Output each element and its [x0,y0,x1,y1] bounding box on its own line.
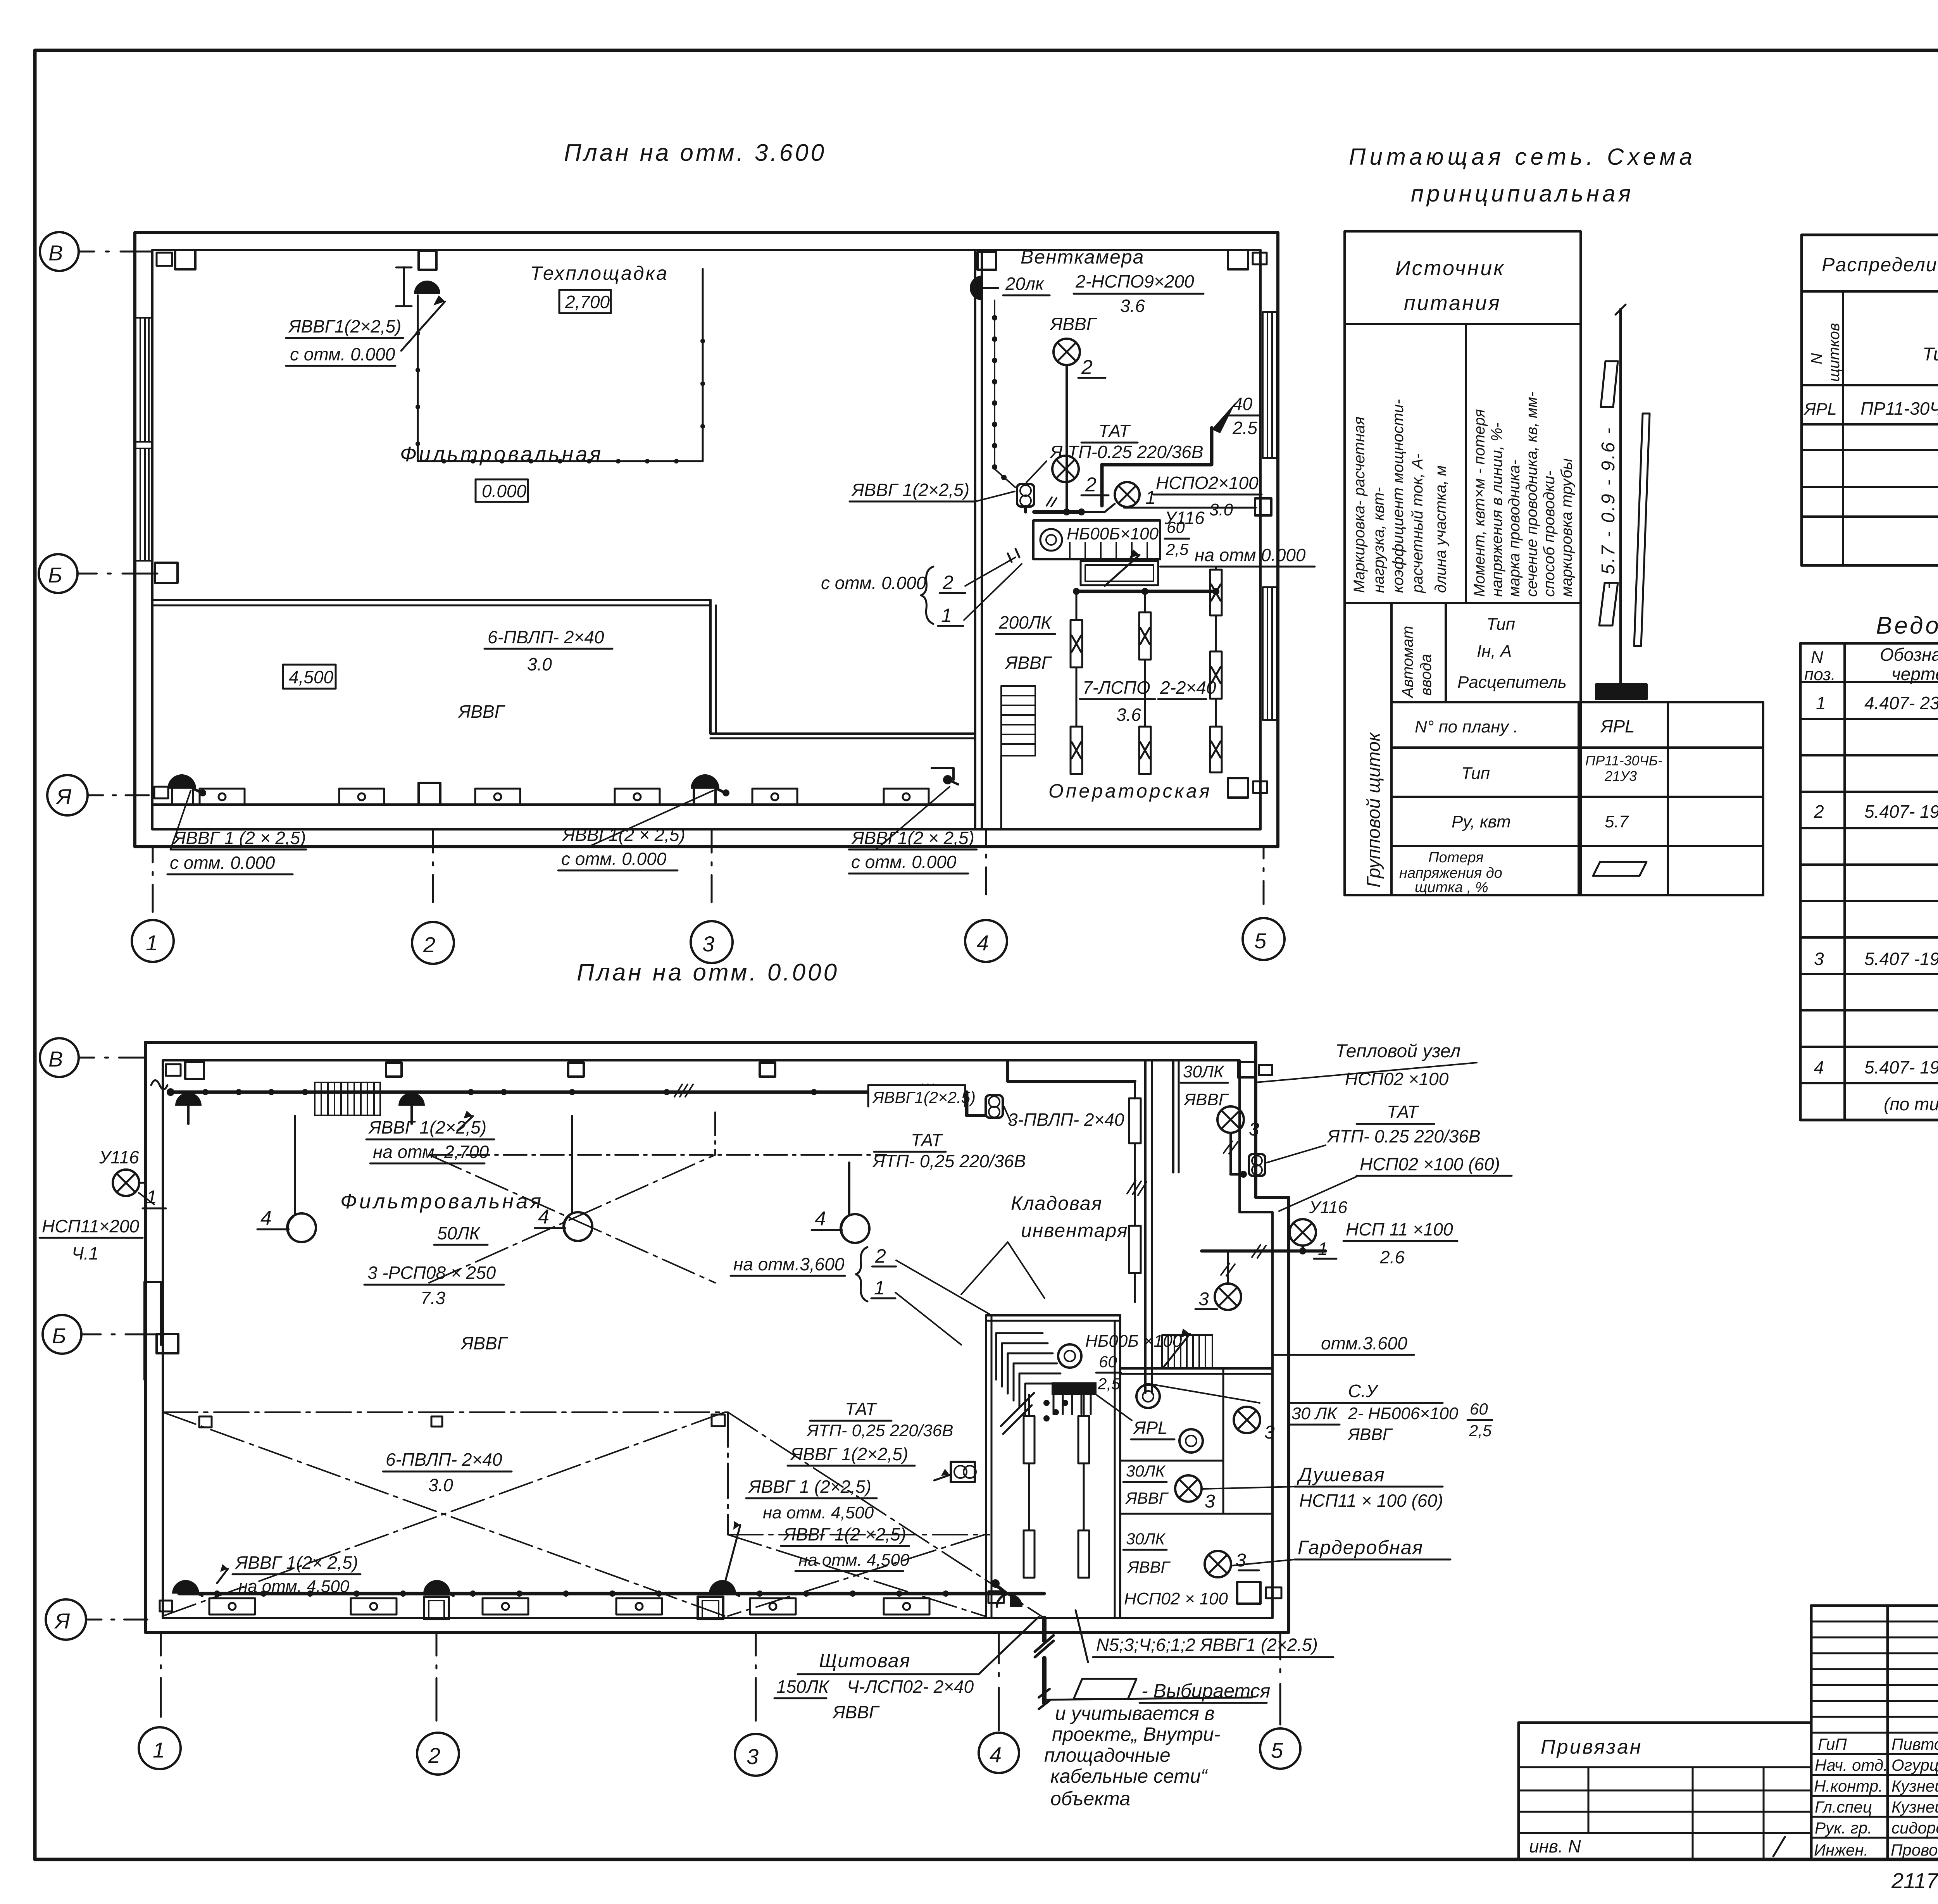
axis V circle [39,232,157,815]
svg-text:Пивторак: Пивторак [1891,1735,1938,1753]
svg-text:4: 4 [977,930,989,955]
svg-text:4: 4 [815,1208,826,1230]
svg-text:У116: У116 [99,1147,139,1167]
svg-text:на отм.3,600: на отм.3,600 [733,1254,845,1274]
svg-text:ЯТП- 0,25 220/36В: ЯТП- 0,25 220/36В [872,1151,1026,1171]
schematic table frame [1345,231,1581,895]
dome lamps on top bus [175,1092,202,1106]
svg-text:2,700: 2,700 [565,292,610,312]
svg-text:Тип: Тип [1486,615,1515,634]
svg-text:ТАТ: ТАТ [911,1130,943,1150]
svg-text:5.407- 19 - 17: 5.407- 19 - 17 [1864,1057,1938,1077]
svg-text:4: 4 [990,1742,1002,1767]
svg-text:НБ00Б×100: НБ00Б×100 [1067,524,1159,543]
labels under A wall [170,825,974,873]
svg-text:ЯРL: ЯРL [1133,1418,1168,1438]
svg-text:принципиальная: принципиальная [1411,181,1634,207]
svg-text:ЯВВГ: ЯВВГ [457,701,505,722]
NB00B row equipment [1033,520,1160,559]
svg-text:3 -РСП08 × 250: 3 -РСП08 × 250 [367,1263,496,1283]
svg-text:2-2×40: 2-2×40 [1160,677,1216,698]
svg-text:Автомат: Автомат [1399,626,1416,698]
svg-text:ЯВВГ: ЯВВГ [1347,1425,1393,1444]
svg-text:щитков: щитков [1826,323,1843,382]
svg-text:ЯВВГ: ЯВВГ [460,1333,508,1353]
svg-text:2: 2 [1081,356,1093,379]
equipment row bottom lower plan [209,1598,929,1615]
svg-text:2: 2 [875,1245,886,1267]
svg-text:проекте„ Внутри-: проекте„ Внутри- [1052,1723,1220,1745]
lamp 1 [1115,482,1140,507]
svg-text:сидорова: сидорова [1891,1819,1938,1837]
YaTP box right wall lower [951,1462,975,1482]
left wall window hatch 1 [136,312,1277,720]
bottom right squares [1237,1582,1260,1604]
svg-text:объекта: объекта [1050,1788,1130,1809]
arrow into box [1105,555,1140,586]
svg-text:питания: питания [1404,291,1501,315]
svg-text:марка проводника-: марка проводника- [1506,460,1523,597]
svg-text:4,500: 4,500 [289,667,334,687]
svg-text:и учитывается в: и учитывается в [1055,1702,1215,1724]
axis A circle [47,775,88,815]
svg-text:НСПО2×100: НСПО2×100 [1156,473,1259,493]
svg-text:Щитовая: Щитовая [819,1650,910,1671]
building inner wall [152,250,1260,829]
wall squares top lower plan [166,1064,181,1076]
svg-text:4: 4 [1814,1057,1824,1077]
svg-text:коэффициент мощности-: коэффициент мощности- [1390,399,1407,593]
svg-text:У116: У116 [1309,1198,1348,1217]
svg-text:1: 1 [1816,693,1826,713]
svg-text:ЯВВГ1(2×2,5): ЯВВГ1(2×2,5) [288,316,401,336]
rotated column text right [1471,392,1575,597]
fan circles [1058,1344,1081,1368]
svg-text:Гардеробная: Гардеробная [1298,1537,1423,1558]
svg-text:Б: Б [52,1323,66,1348]
svg-text:30ЛК: 30ЛК [1126,1462,1166,1480]
privyazan box [1519,1721,1811,1724]
column square B-axis [155,563,178,583]
svg-text:Тепловой узел: Тепловой узел [1335,1041,1460,1061]
svg-text:Инжен.: Инжен. [1814,1841,1868,1859]
svg-text:3: 3 [1198,1289,1209,1310]
svg-text:3: 3 [1205,1491,1215,1512]
svg-text:инвентаря: инвентаря [1021,1220,1128,1241]
svg-text:Потеря: Потеря [1428,849,1483,866]
signature table [1810,1606,1813,1859]
line to lamp1 and socket bracket [1105,504,1115,512]
lamp teplovoy [1217,1106,1244,1133]
svg-text:Кузнецов: Кузнецов [1891,1777,1938,1795]
dotted wire down [994,300,995,469]
svg-text:Групповой щиток: Групповой щиток [1364,732,1384,887]
svg-text:N: N [1808,353,1825,364]
right wall window hatch 2 [1263,587,1277,720]
svg-text:3.6: 3.6 [1120,296,1145,316]
stairs upper plan [1001,686,1035,756]
thick feeder from panel down [1042,1618,1047,1703]
svg-text:поз.: поз. [1804,665,1836,684]
small squares on dash line [199,1416,212,1427]
svg-text:1: 1 [146,930,158,955]
svg-text:ЯВВГ 1(2×2,5): ЯВВГ 1(2×2,5) [790,1444,908,1464]
svg-text:ЯТП- 0,25 220/36В: ЯТП- 0,25 220/36В [806,1421,953,1440]
svg-text:3: 3 [1264,1422,1275,1443]
svg-text:ЯВВГ: ЯВВГ [1049,314,1097,334]
svg-text:Ч.1: Ч.1 [72,1243,98,1263]
svg-text:30 ЛК: 30 ЛК [1291,1404,1338,1423]
svg-text:200ЛК: 200ЛК [998,612,1052,632]
svg-text:5.407 -19 -21: 5.407 -19 -21 [1864,949,1938,969]
svg-text:3.0: 3.0 [428,1475,453,1495]
svg-text:НСП02 ×100: НСП02 ×100 [1345,1069,1449,1089]
svg-text:Провоторова: Провоторова [1891,1841,1938,1859]
svg-text:на отм. 4,500: на отм. 4,500 [798,1551,910,1570]
svg-text:1: 1 [874,1277,885,1299]
svg-text:5: 5 [1271,1738,1283,1763]
svg-text:2: 2 [942,572,953,593]
svg-text:N5;3;Ч;6;1;2 ЯВВГ1 (2×2.5): N5;3;Ч;6;1;2 ЯВВГ1 (2×2.5) [1096,1635,1318,1655]
svg-text:Н.контр.: Н.контр. [1814,1777,1883,1795]
ventkamera wall dome [970,276,982,300]
axis V circle lower [40,1038,79,1077]
corridor equipment rects [200,789,929,805]
svg-text:5.7: 5.7 [1605,812,1629,831]
svg-text:2- НБ006×100: 2- НБ006×100 [1348,1404,1459,1423]
chains [1071,567,1222,774]
svg-text:С.У: С.У [1348,1381,1379,1401]
svg-text:ПР11-30ЧБ-: ПР11-30ЧБ- [1585,753,1662,768]
bottom axis circles lower plan [139,1632,1300,1776]
bus corner down to YaTP [965,1092,969,1115]
svg-text:Кладовая: Кладовая [1011,1192,1102,1214]
svg-text:НСП11×200: НСП11×200 [42,1216,140,1236]
svg-text:Привязан: Привязан [1541,1736,1642,1758]
svg-text:1: 1 [941,605,952,626]
svg-text:2.6: 2.6 [1379,1247,1405,1267]
svg-text:4: 4 [260,1207,272,1229]
svg-text:3.0: 3.0 [1209,500,1233,519]
hook mark left of bus [151,1080,167,1090]
building outer wall lower [145,1042,1289,1632]
svg-text:Ч-ЛСП02- 2×40: Ч-ЛСП02- 2×40 [847,1677,974,1697]
X diagonals upper part [429,1155,715,1283]
svg-text:3: 3 [747,1744,759,1769]
svg-text:инв. N: инв. N [1529,1836,1581,1856]
tehploshadka wiring outline [418,269,703,461]
svg-text:1: 1 [1145,488,1156,508]
inner wall filtrovalnaya [152,599,710,601]
svg-text:2: 2 [428,1743,440,1768]
svg-text:ЯВВГ 1(2× 2,5): ЯВВГ 1(2× 2,5) [234,1552,358,1573]
svg-text:ЯВВГ: ЯВВГ [1125,1489,1169,1507]
svg-text:2: 2 [1085,474,1097,496]
lamp 2 lower [1052,456,1079,482]
svg-text:сечение проводника, кв, мм-: сечение проводника, кв, мм- [1523,392,1540,597]
svg-text:Техплощадка: Техплощадка [530,262,669,284]
svg-text:площадочные: площадочные [1044,1744,1171,1766]
svg-text:3: 3 [1249,1119,1259,1140]
feeder line [1619,309,1622,684]
svg-text:маркировка трубы: маркировка трубы [1558,458,1575,597]
svg-text:ЯВВГ: ЯВВГ [1127,1558,1171,1576]
svg-text:Iн, А: Iн, А [1477,642,1512,661]
rows [1814,691,1938,1115]
svg-text:2: 2 [423,932,435,957]
svg-text:Фильтровальная: Фильтровальная [340,1190,543,1213]
svg-text:2,5: 2,5 [1097,1375,1121,1393]
svg-text:напряжения до: напряжения до [1399,865,1502,881]
dome lamps on bottom bus [172,1580,199,1594]
parallelogram top [1601,361,1618,407]
svg-text:21179- 03: 21179- 03 [1891,1868,1938,1893]
svg-text:на отм. 2,700: на отм. 2,700 [373,1142,489,1162]
svg-text:- Выбирается: - Выбирается [1141,1680,1270,1702]
svg-text:Ру, квт: Ру, квт [1452,812,1511,831]
svg-text:НСП11 × 100 (60): НСП11 × 100 (60) [1299,1490,1443,1511]
X diagonals bottom-left room [163,1412,1044,1618]
svg-text:НСП02 ×100 (60): НСП02 ×100 (60) [1360,1154,1500,1174]
svg-text:ЯВВГ1(2×2.5): ЯВВГ1(2×2.5) [872,1088,976,1106]
svg-text:Нач. отд.: Нач. отд. [1815,1756,1888,1774]
partition ventkamera [974,250,976,829]
small hatch marks [1047,497,1057,507]
svg-text:N: N [1811,648,1823,667]
svg-text:на отм. 4.500: на отм. 4.500 [238,1577,350,1596]
table shchitkov frame [1802,235,1938,565]
svg-text:Тип: Тип [1461,764,1490,783]
tall parallelogram [1634,414,1650,646]
svg-text:ЯТП- 0.25 220/36В: ЯТП- 0.25 220/36В [1326,1126,1481,1146]
corridor floor line [152,803,975,806]
svg-text:ЯВВГ: ЯВВГ [832,1702,880,1722]
panel ARL black [1052,1382,1097,1395]
axis B circle lower [43,1315,81,1354]
svg-text:N° по плану .: N° по плану . [1415,717,1518,736]
svg-text:ввода: ввода [1417,654,1435,696]
svg-text:3: 3 [1236,1550,1246,1571]
svg-text:Я ТП-0.25 220/36В: Я ТП-0.25 220/36В [1049,442,1203,462]
svg-text:150ЛК: 150ЛК [776,1677,830,1697]
su dushevaya garderobnaya rooms [1120,1367,1272,1370]
dome lamp bottom left of room [1010,1594,1022,1607]
svg-text:НСП 11 ×100: НСП 11 ×100 [1346,1219,1453,1239]
svg-text:- 5.7 - 0.9 - 9.6 -: - 5.7 - 0.9 - 9.6 - [1598,426,1619,589]
svg-text:60: 60 [1470,1400,1488,1418]
svg-text:расчетный ток, А-: расчетный ток, А- [1409,453,1426,593]
svg-text:щитка , %: щитка , % [1415,879,1488,896]
shchitovaya room [985,1315,987,1618]
svg-text:Расцепитель: Расцепитель [1457,673,1567,692]
svg-text:ЯВВГ 1(2×2,5): ЯВВГ 1(2×2,5) [851,480,969,500]
svg-text:на отм 0.000: на отм 0.000 [1195,545,1306,565]
lamp 2 upper [1053,339,1080,365]
svg-text:В: В [48,1047,63,1071]
inner double box [1081,561,1158,585]
YaTP teplovoy [1249,1154,1265,1176]
svg-text:2,5: 2,5 [1469,1422,1492,1440]
tehploshadka dome lamp [414,281,440,294]
svg-text:50ЛК: 50ЛК [437,1223,481,1243]
vedomost table frame [1800,643,1938,1120]
hatch marks on bus [674,1084,693,1097]
YaTP box [1017,484,1034,507]
svg-text:с отм. 0.000: с отм. 0.000 [290,344,395,364]
building outer wall [135,233,1278,847]
leader arrows to lamps [171,791,191,849]
svg-text:Маркировка- расчетная: Маркировка- расчетная [1351,417,1368,593]
svg-text:0.000: 0.000 [482,481,527,501]
svg-text:способ проводки-: способ проводки- [1541,471,1558,597]
svg-text:60: 60 [1167,518,1185,536]
svg-text:60: 60 [1099,1353,1117,1371]
svg-text:5.407- 19 -30: 5.407- 19 -30 [1864,801,1938,822]
lamp teplovoy 2 [1215,1284,1241,1310]
svg-text:с отм. 0.000: с отм. 0.000 [561,849,667,869]
svg-text:1: 1 [153,1738,165,1762]
svg-text:Б: Б [48,563,62,587]
column squares operatorskaya bottom [1228,778,1248,798]
svg-text:ГиП: ГиП [1818,1735,1847,1753]
svg-text:напряжения в линии, %-: напряжения в линии, %- [1488,422,1505,597]
svg-text:4.407- 233- 001: 4.407- 233- 001 [1864,693,1938,713]
parallelogram value [1593,862,1647,876]
wire bundle nested [996,1333,1064,1434]
svg-text:нагрузка, квт-: нагрузка, квт- [1370,487,1387,593]
tehploshadka dash-dot rect on lower plan [429,1112,886,1155]
svg-text:ТАТ: ТАТ [845,1399,878,1419]
svg-text:6-ПВЛП- 2×40: 6-ПВЛП- 2×40 [386,1449,502,1470]
svg-text:ЯВВГ1(2 × 2,5): ЯВВГ1(2 × 2,5) [851,828,974,848]
svg-text:20лк: 20лк [1005,274,1045,294]
svg-text:Кузнецов: Кузнецов [1891,1798,1938,1816]
column squares ventkamera top [978,252,996,270]
svg-text:2: 2 [1814,801,1824,822]
kladovaya chain [1134,1081,1136,1098]
svg-text:1: 1 [147,1187,157,1208]
fluorescent bus [1076,590,1216,593]
svg-text:Момент, квт×м - потеря: Момент, квт×м - потеря [1471,409,1488,597]
corridor squares columns [419,783,440,805]
right wall window hatch 1 [1263,312,1277,458]
svg-text:ЯВВГ 1 (2 × 2,5): ЯВВГ 1 (2 × 2,5) [172,828,306,848]
svg-text:ЯРL: ЯРL [1600,716,1635,736]
svg-text:2.5: 2.5 [1232,418,1257,438]
svg-text:7.3: 7.3 [421,1288,445,1308]
svg-text:Душевая: Душевая [1297,1464,1385,1485]
stairs 2 lower plan [1162,1335,1212,1368]
bottom bus lower plan [179,1592,1044,1596]
svg-text:Ведомость комплектных линий: Ведомость комплектных линий и узлов [1876,612,1938,639]
svg-text:3.0: 3.0 [527,654,552,674]
svg-text:Тип: Тип [1922,344,1938,365]
svg-text:ЯВВГ 1(2 ×2,5): ЯВВГ 1(2 ×2,5) [783,1524,906,1544]
stairs lower plan top [315,1082,380,1115]
svg-text:длина участка, м: длина участка, м [1432,465,1449,593]
svg-text:30ЛК: 30ЛК [1183,1062,1224,1081]
svg-text:НСП02 × 100: НСП02 × 100 [1124,1589,1228,1608]
lamps in rooms [1234,1407,1260,1433]
svg-text:ЯВВГ1(2 × 2,5): ЯВВГ1(2 × 2,5) [562,825,685,845]
leader from label to YaTP [1026,461,1047,482]
svg-text:Гл.спец: Гл.спец [1815,1798,1872,1816]
axis B circle [39,554,78,593]
building inner wall lower [163,1060,1272,1618]
svg-text:Рук. гр.: Рук. гр. [1815,1819,1872,1837]
svg-text:ПР11-30ЧБ- 21У3: ПР11-30ЧБ- 21У3 [1860,398,1938,419]
svg-text:Распределительный пункт: Распределительный пункт [1822,254,1938,276]
svg-text:7-ЛСПО: 7-ЛСПО [1083,677,1150,698]
svg-text:Обозначение: Обозначение [1880,644,1938,665]
svg-text:30ЛК: 30ЛК [1126,1530,1166,1548]
svg-text:План на отм. 0.000: План на отм. 0.000 [577,959,839,986]
svg-text:кабельные сети“: кабельные сети“ [1050,1765,1208,1787]
svg-text:ЯРL: ЯРL [1804,400,1837,419]
axis bottom circles [132,829,1285,964]
svg-text:3-ПВЛП- 2×40: 3-ПВЛП- 2×40 [1008,1110,1124,1130]
svg-text:Огурцов: Огурцов [1891,1756,1938,1774]
svg-text:ЯВВГ: ЯВВГ [1183,1090,1229,1109]
arrow to dome [401,302,445,351]
svg-text:Операторская: Операторская [1048,780,1212,802]
svg-text:ЯВВГ: ЯВВГ [1004,653,1052,673]
40/2.5 arrow right [1102,428,1212,465]
wire top horiz in kladovaya [1008,1080,1135,1083]
svg-text:Венткамера: Венткамера [1021,246,1144,268]
dome lamps corridor [167,774,196,789]
fluorescent chains shchitovaya [1024,1395,1089,1578]
svg-text:ТАТ: ТАТ [1098,421,1131,441]
B-axis wall column lower [145,1282,161,1345]
svg-text:2-НСПО9×200: 2-НСПО9×200 [1075,271,1194,291]
svg-text:на отм. 4,500: на отм. 4,500 [763,1503,874,1522]
svg-text:чертежа: чертежа [1891,664,1938,684]
svg-text:3.6: 3.6 [1116,705,1141,725]
svg-text:3: 3 [1814,949,1824,969]
rotated column text left [1351,399,1449,593]
svg-text:ЯВВГ 1 (2×2,5): ЯВВГ 1 (2×2,5) [748,1477,871,1497]
svg-text:отм.3.600: отм.3.600 [1321,1333,1407,1353]
column squares top-left corner [157,253,172,266]
dome near partition [947,779,958,784]
svg-text:Я: Я [55,784,72,809]
pendant lamps row (type 4) [257,1116,869,1243]
svg-text:6-ПВЛП- 2×40: 6-ПВЛП- 2×40 [488,627,604,647]
svg-text:с отм. 0.000: с отм. 0.000 [851,852,957,872]
svg-text:План на отм. 3.600: План на отм. 3.600 [564,140,826,166]
thick wires [1034,510,1081,514]
left wall window hatch 2 [136,448,152,561]
svg-text:ТАТ: ТАТ [1387,1102,1419,1122]
svg-text:В: В [48,241,63,265]
busbar [1596,684,1647,699]
top bus wire lower [171,1091,967,1094]
svg-text:40: 40 [1233,394,1253,414]
svg-text:Питающая сеть. Схема: Питающая сеть. Схема [1349,144,1696,170]
svg-text:(по типу): (по типу) [1884,1094,1938,1114]
teplovoy uzel room [1172,1060,1174,1172]
svg-text:с отм. 0.000: с отм. 0.000 [821,573,926,593]
svg-text:5: 5 [1254,929,1267,953]
bus through teplovoy [1202,1249,1326,1253]
svg-text:21У3: 21У3 [1604,768,1637,784]
svg-text:1: 1 [1318,1239,1328,1259]
svg-text:Источник: Источник [1395,257,1505,280]
svg-text:с отм. 0.000: с отм. 0.000 [170,853,275,873]
vybiraetsya note [1074,1679,1136,1699]
parallelogram bottom [1599,583,1618,625]
